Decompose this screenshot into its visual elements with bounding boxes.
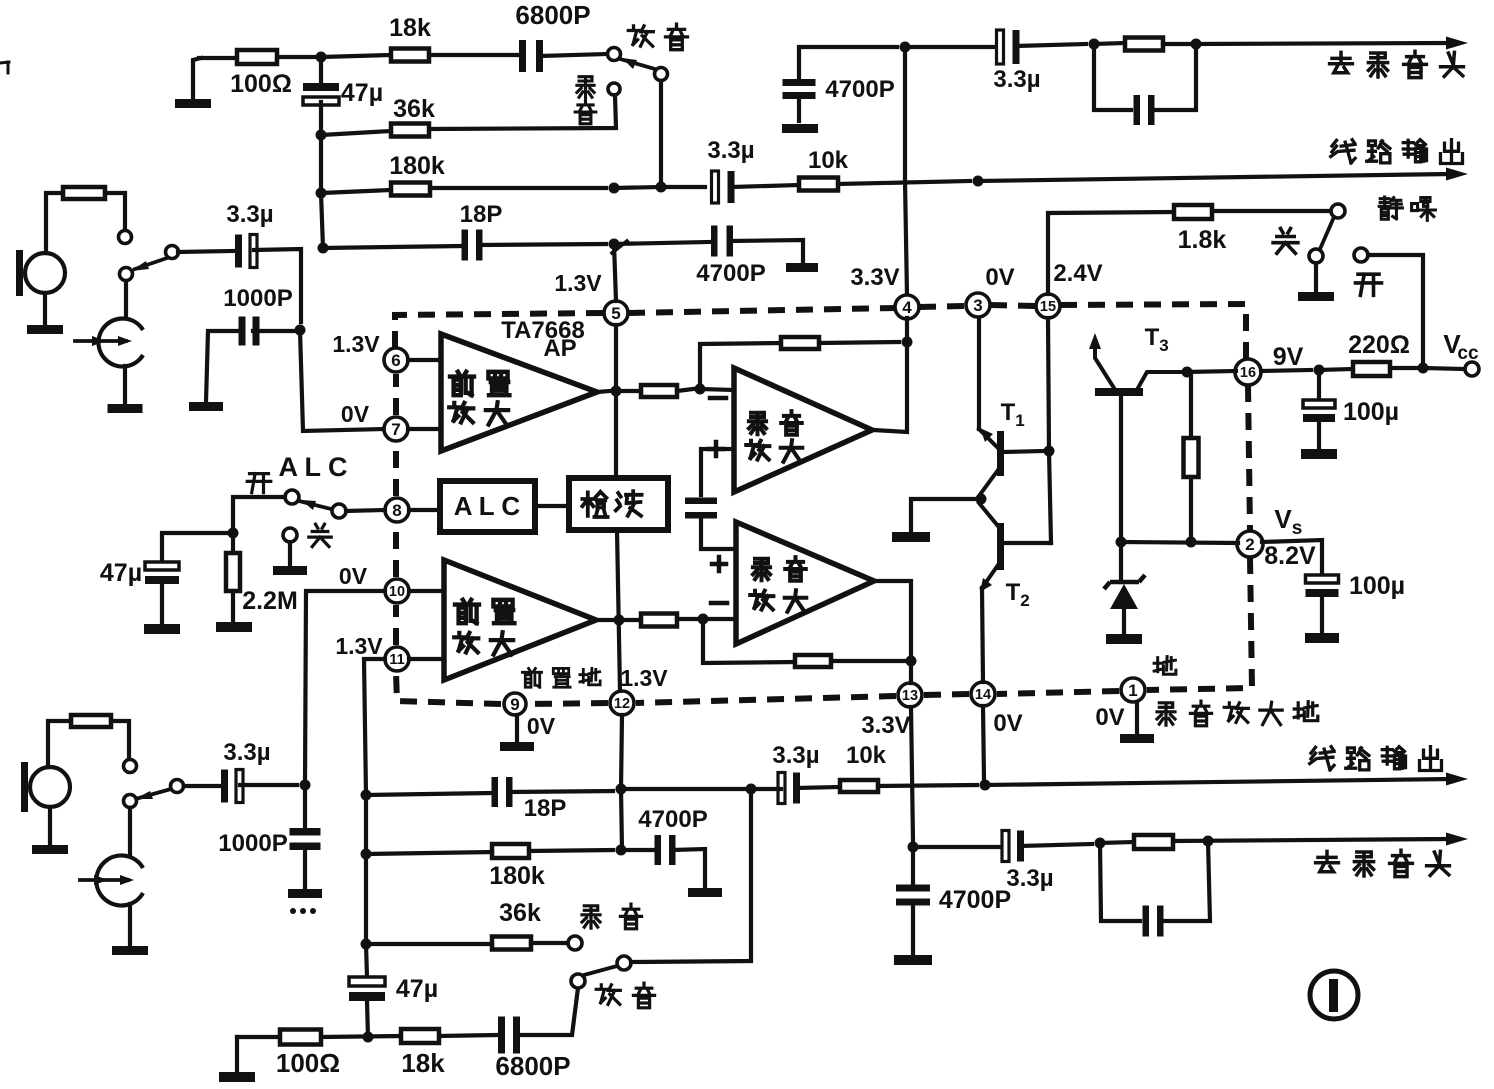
wire (319, 57, 323, 87)
transistor T2 (979, 503, 1051, 610)
label 关 (静噪) (1273, 229, 1298, 254)
node (746, 784, 757, 795)
node (1182, 367, 1193, 378)
node (361, 849, 372, 860)
wire (321, 131, 391, 135)
record head P2 (80, 855, 143, 905)
node (228, 528, 239, 539)
svg-text:V: V (1274, 504, 1292, 534)
wire (439, 1035, 496, 1036)
svg-text:6: 6 (391, 351, 400, 370)
svg-text:12: 12 (614, 696, 630, 712)
label Vs (1274, 504, 1302, 539)
transistor T1 (979, 399, 1044, 496)
svg-text:7: 7 (391, 420, 400, 439)
mark (scan speck top-left) (0, 62, 9, 73)
wire (321, 193, 323, 248)
wire (621, 848, 654, 852)
wire (253, 329, 300, 333)
wire (408, 427, 441, 431)
label 1.3V (pin12) (620, 665, 668, 691)
wire (pin11 column) (364, 659, 385, 795)
switch 开 contact (1354, 248, 1382, 295)
svg-text:2.4V: 2.4V (1053, 260, 1102, 287)
wire (pin12 column low) (621, 715, 622, 850)
resistor 18k (top) (389, 14, 431, 62)
pin 4 (850, 264, 919, 319)
resistor (mic1) (63, 187, 105, 199)
wire (366, 942, 492, 946)
wire (1021, 844, 1092, 846)
wire (797, 96, 801, 121)
wire (128, 808, 132, 856)
resistor 36k (top) (391, 95, 435, 137)
capacitor 1000P (input2) (218, 828, 320, 857)
node (900, 42, 911, 53)
wire (feedback amp2) (700, 343, 781, 389)
wire (831, 659, 905, 663)
node (616, 784, 627, 795)
wire (pin5 column) (614, 325, 618, 478)
capacitor 4700P (top rail) (783, 76, 895, 103)
ground (mic1) (27, 293, 63, 334)
wire 去录音头 (bottom) (1173, 833, 1468, 846)
wire (366, 793, 490, 795)
wire (701, 520, 736, 549)
switch blade (input2) (135, 789, 171, 799)
ground (782, 124, 818, 133)
wire (597, 391, 610, 392)
wire (819, 342, 899, 343)
svg-text:13: 13 (902, 688, 918, 704)
svg-text:47µ: 47µ (341, 79, 383, 107)
resistor 18k (bottom) (401, 1029, 445, 1078)
wire (1049, 451, 1051, 543)
node (902, 337, 913, 348)
dots (290, 908, 316, 914)
capacitor 100µ (Vs) (1306, 572, 1406, 600)
node (361, 790, 372, 801)
svg-text:2: 2 (1245, 535, 1254, 554)
resistor 100Ω (top) (230, 50, 292, 98)
wire (911, 847, 915, 884)
svg-text:180k: 180k (489, 862, 545, 890)
resistor 36k (bottom) (492, 899, 541, 950)
wire (429, 95, 616, 129)
resistor (amp4 out) (641, 614, 677, 627)
svg-text:1.3V: 1.3V (332, 331, 380, 357)
node (1418, 363, 1429, 374)
wire (366, 944, 367, 977)
resistor (head line bottom) (1134, 835, 1173, 849)
wire (321, 190, 391, 193)
svg-text:T: T (1145, 324, 1160, 351)
wire (838, 181, 970, 184)
capacitor 1000P (input1) (223, 285, 292, 346)
ground (216, 622, 252, 632)
ground (892, 532, 930, 542)
ground (P2) (112, 904, 148, 955)
capacitor 6800P (bottom) (495, 1017, 570, 1082)
label 前置地 (522, 668, 600, 687)
wire (703, 617, 736, 621)
svg-text:A L C: A L C (454, 491, 521, 521)
wire (799, 47, 897, 80)
node (1089, 39, 1100, 50)
wire (1212, 209, 1331, 213)
wire (parallel cap branch bottom) (1100, 843, 1140, 921)
switch blade (input1) (131, 257, 170, 271)
label 去录音头 (bottom) (1316, 850, 1450, 876)
svg-text:47µ: 47µ (396, 975, 438, 1003)
svg-text:0V: 0V (985, 264, 1014, 291)
wire (797, 787, 840, 788)
wire (111, 721, 129, 759)
capacitor 3.3µ (head bottom) (1002, 831, 1054, 893)
node (616, 845, 627, 856)
block 检波 (569, 478, 668, 530)
label 线路输出 (top) (1331, 140, 1463, 164)
wire (518, 988, 578, 1035)
plus input mark (709, 442, 723, 456)
switch 录音 contact (top) (575, 77, 620, 124)
wire (1016, 44, 1086, 46)
switch 静噪 blade (1320, 217, 1334, 249)
wire (233, 497, 285, 527)
wire (T1 emitter to gnd) (911, 499, 981, 532)
switch 放音 blade (bottom) (584, 966, 617, 975)
switch contact (mic2) (124, 760, 137, 773)
label 放音 (top) (628, 24, 687, 50)
label 录音放大地 (1157, 701, 1318, 726)
wire (160, 585, 164, 624)
pin 12 (610, 691, 634, 715)
transistor T3 (1089, 324, 1182, 396)
svg-text:18P: 18P (460, 201, 503, 228)
wire (1152, 44, 1196, 110)
capacitor 6800P (top) (515, 0, 590, 72)
node (695, 384, 706, 395)
wire (detector column) (617, 530, 620, 691)
wire 线路输出 (bottom) (985, 773, 1468, 786)
wire (184, 784, 219, 788)
svg-text:100µ: 100µ (1343, 398, 1399, 426)
label 开 (ALC) (247, 474, 271, 493)
wire (614, 242, 709, 244)
svg-text:4700P: 4700P (696, 260, 765, 287)
ground (688, 888, 722, 897)
wire (1189, 372, 1193, 438)
svg-text:4700P: 4700P (939, 886, 1011, 914)
switch contact (mic1) (119, 231, 132, 244)
node (980, 780, 991, 791)
svg-text:0V: 0V (339, 563, 368, 589)
op-amp 录音放大 (2) (734, 368, 872, 492)
wire (231, 591, 235, 622)
wire (614, 187, 661, 188)
wire (1121, 542, 1238, 543)
resistor 180k (bottom) (489, 844, 545, 890)
wire (pin4 riser) (905, 47, 907, 296)
capacitor 47µ (bottom) (349, 975, 438, 1003)
switch 录音 contact (bottom) (568, 936, 582, 950)
svg-text:180k: 180k (389, 152, 445, 180)
svg-text:3.3µ: 3.3µ (993, 66, 1040, 93)
wire (619, 618, 641, 622)
svg-text:5: 5 (611, 304, 620, 323)
svg-text:47µ: 47µ (100, 559, 142, 587)
mark (circled 1) (1310, 971, 1358, 1019)
wire (T3 base drop) (1119, 396, 1123, 538)
switch ALC pole (285, 490, 299, 504)
svg-text:1: 1 (1128, 681, 1137, 700)
wire (677, 389, 693, 391)
switch ALC contact (332, 504, 346, 518)
terminal Vcc (1443, 329, 1479, 376)
svg-text:8: 8 (392, 501, 401, 520)
svg-text:11: 11 (389, 652, 404, 668)
svg-text:14: 14 (975, 687, 991, 703)
node (1116, 537, 1127, 548)
capacitor 4700P (180k line) (638, 806, 707, 865)
node (1044, 446, 1055, 457)
svg-text:100Ω: 100Ω (276, 1048, 340, 1078)
pin 11 (335, 633, 409, 671)
wire (124, 281, 128, 318)
node (1186, 537, 1197, 548)
svg-text:cc: cc (1457, 343, 1479, 364)
wire (430, 186, 606, 190)
wire (596, 618, 612, 622)
wire (pin5 column upper) (614, 244, 616, 301)
ground (786, 263, 818, 272)
svg-text:1000P: 1000P (218, 830, 287, 857)
node (698, 614, 709, 625)
wire (751, 787, 781, 791)
capacitor 3.3µ (line out top) (707, 137, 754, 203)
node (363, 1032, 374, 1043)
wire (409, 657, 444, 661)
svg-text:3.3µ: 3.3µ (772, 742, 819, 769)
wire (162, 533, 233, 562)
resistor (mic2) (71, 715, 111, 727)
node (295, 325, 306, 336)
zener diode (1104, 542, 1145, 644)
wire (319, 135, 323, 193)
svg-text:3.3µ: 3.3µ (707, 137, 754, 164)
wire (bottom rail) (237, 1035, 280, 1039)
ground (189, 402, 223, 411)
pin 2 (1237, 531, 1263, 557)
resistor 1.8k (1174, 205, 1226, 254)
wire (321, 1036, 401, 1037)
minus input mark (710, 396, 726, 401)
ground (top-left stub) (175, 58, 211, 108)
wire (1094, 43, 1125, 44)
svg-text:100µ: 100µ (1349, 572, 1405, 600)
svg-text:4: 4 (902, 298, 912, 317)
pin 1 (1095, 678, 1145, 731)
node (976, 494, 987, 505)
wire (pin4 drop) (874, 318, 907, 432)
switch 放音 (top) contact 1 (608, 48, 621, 61)
pin 7 (341, 401, 408, 441)
wire (pin15 riser) (1048, 212, 1174, 294)
wire (531, 941, 566, 945)
ground (P1) (108, 366, 143, 413)
svg-text:AP: AP (543, 335, 576, 362)
resistor 220Ω (1348, 331, 1410, 376)
svg-text:100Ω: 100Ω (230, 70, 292, 98)
svg-text:A L C: A L C (278, 452, 347, 482)
svg-text:T: T (1006, 579, 1021, 606)
wire 去录音头 (top) (1163, 37, 1468, 50)
wire (46, 193, 63, 253)
wire (1187, 371, 1236, 372)
svg-text:18k: 18k (389, 14, 431, 42)
pin 15 (1036, 260, 1103, 318)
svg-text:4700P: 4700P (638, 806, 707, 833)
wire (303, 785, 307, 831)
wire (199, 56, 237, 60)
wire (481, 244, 606, 245)
svg-text:6800P: 6800P (495, 1051, 570, 1081)
ground (mic2) (32, 807, 68, 854)
svg-text:9V: 9V (1273, 343, 1304, 371)
wire (510, 791, 613, 792)
capacitor 47µ (ALC) (100, 559, 179, 587)
wire (323, 246, 461, 248)
switch 放音 contact (bottom) (571, 974, 585, 988)
label 录音 (bottom) (582, 904, 642, 929)
wire (621, 787, 745, 791)
wire (731, 240, 803, 263)
label 地 (pin1) (1154, 657, 1176, 675)
capacitor 4700P (18P line top) (696, 226, 765, 288)
switch 静噪 contact (1331, 204, 1345, 218)
microphone M1 (16, 250, 65, 296)
wire (659, 81, 663, 187)
svg-text:9: 9 (510, 695, 519, 714)
label ALC (278, 452, 347, 482)
wire (535, 504, 569, 508)
wire (364, 795, 368, 854)
svg-text:10k: 10k (846, 742, 887, 769)
wire (231, 533, 235, 553)
wire (T2 emitter to pin14) (982, 588, 983, 682)
wire (366, 852, 492, 854)
pin 9 (504, 693, 526, 715)
node (656, 182, 667, 193)
node (318, 243, 329, 254)
svg-text:3.3µ: 3.3µ (1006, 865, 1053, 892)
wire (1390, 366, 1416, 370)
minus input mark (amp3) (711, 601, 727, 606)
plus input mark (amp3) (712, 557, 726, 571)
wire (pin3 drop) (977, 318, 981, 429)
wire (1423, 368, 1464, 369)
svg-text:6800P: 6800P (515, 0, 590, 30)
label 9V (1273, 343, 1304, 371)
resistor (T3 bias) (1184, 438, 1199, 477)
wire (pin10 column) (305, 591, 385, 785)
svg-text:3: 3 (1159, 336, 1168, 355)
wire (874, 581, 911, 683)
wire (1261, 370, 1311, 371)
capacitor 3.3µ (line out bottom) (772, 742, 819, 804)
resistor 10k (bottom) (840, 742, 887, 792)
node (316, 188, 327, 199)
svg-text:s: s (1292, 518, 1303, 539)
wire (346, 510, 385, 511)
label 静噪 (1379, 197, 1435, 220)
capacitor 18P (bottom) (492, 777, 567, 822)
wire (105, 193, 125, 230)
wire (616, 389, 641, 393)
node (1314, 365, 1325, 376)
node (614, 615, 625, 626)
capacitor 4700P (pin13) (896, 885, 1011, 915)
wire (409, 508, 440, 512)
node (609, 183, 620, 194)
ground (pin1) (1120, 702, 1154, 743)
node (973, 176, 984, 187)
wire (409, 589, 444, 593)
resistor 10k (top) (799, 147, 849, 191)
pin 8 (385, 498, 409, 522)
svg-text:1.8k: 1.8k (1178, 226, 1227, 254)
wire (1189, 477, 1193, 542)
node (906, 656, 917, 667)
wire (feedback amp3) (703, 619, 795, 663)
ground (894, 955, 932, 965)
wire (911, 902, 915, 955)
capacitor (parallel, bottom) (1143, 906, 1164, 937)
ground (关) (273, 542, 307, 575)
wire (408, 358, 441, 362)
wire (700, 389, 734, 390)
switch contact out (input1) (166, 246, 179, 259)
ground (1301, 449, 1337, 459)
wire (1317, 422, 1321, 449)
pin 3 (966, 264, 1015, 317)
node (316, 130, 327, 141)
wire (48, 721, 71, 767)
label 8.2V (1264, 542, 1316, 570)
node (1095, 838, 1106, 849)
switch 放音 (top) blade (620, 58, 655, 69)
block ALC (440, 481, 535, 532)
ground (144, 624, 180, 634)
pin 5 (554, 270, 628, 325)
svg-text:4700P: 4700P (825, 76, 894, 103)
wire (1100, 842, 1134, 843)
switch 关 contact (ALC) (283, 524, 331, 546)
switch pole (input2) (124, 795, 137, 808)
svg-text:1000P: 1000P (223, 285, 292, 312)
svg-text:3.3µ: 3.3µ (223, 739, 270, 766)
svg-text:18k: 18k (401, 1048, 445, 1078)
resistor 180k (top) (389, 152, 445, 196)
wire (1160, 841, 1210, 921)
op-amp 前置放大 (1) (441, 334, 597, 451)
resistor 2.2M (226, 553, 298, 615)
microphone M2 (21, 762, 70, 812)
node (300, 780, 311, 791)
wire (701, 449, 734, 495)
capacitor 100µ (Vcc) (1303, 371, 1399, 426)
wire (pin14 column) (983, 706, 984, 779)
